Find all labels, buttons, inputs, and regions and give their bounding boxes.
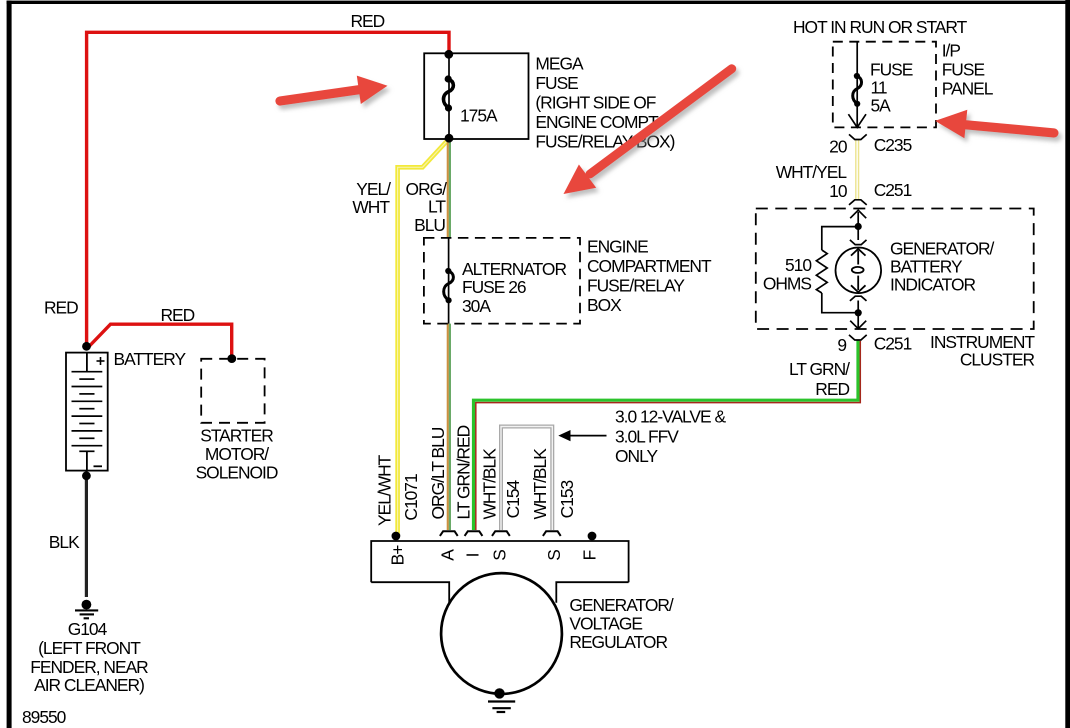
- fuse 11 element: [853, 76, 862, 104]
- svg-text:BLK: BLK: [49, 532, 80, 552]
- svg-text:WHT/BLK: WHT/BLK: [480, 448, 500, 520]
- svg-text:MOTOR/: MOTOR/: [205, 444, 269, 464]
- annotation pointer to jumper: [569, 435, 607, 437]
- svg-text:S: S: [490, 550, 510, 561]
- svg-text:BOX: BOX: [587, 295, 622, 315]
- svg-text:WHT/BLK: WHT/BLK: [530, 448, 550, 520]
- generator circle: [441, 573, 562, 694]
- svg-text:G104: G104: [68, 619, 108, 639]
- connector C251 female bottom: [849, 335, 867, 340]
- svg-text:OHMS: OHMS: [763, 274, 812, 294]
- resistor branch wire: [822, 227, 858, 313]
- junction dot cluster top: [855, 223, 862, 230]
- connector female above indicator: [850, 240, 867, 245]
- svg-text:(LEFT FRONT: (LEFT FRONT: [38, 638, 141, 658]
- svg-text:SOLENOID: SOLENOID: [196, 463, 278, 483]
- svg-text:BLU: BLU: [414, 215, 445, 235]
- svg-text:AIR CLEANER): AIR CLEANER): [34, 675, 144, 695]
- resistor 510 ohms: [816, 250, 827, 293]
- svg-text:3.0 12-VALVE &: 3.0 12-VALVE &: [615, 407, 726, 427]
- starter motor/solenoid box: [201, 359, 264, 423]
- svg-text:C251: C251: [874, 180, 912, 200]
- svg-text:C251: C251: [874, 334, 912, 354]
- junction dot B+: [392, 532, 401, 541]
- svg-text:FUSE: FUSE: [942, 60, 985, 80]
- connector male arrow up into cluster: [850, 210, 866, 226]
- svg-text:RED: RED: [351, 11, 385, 31]
- svg-text:RED: RED: [44, 298, 78, 318]
- svg-text:I: I: [463, 553, 483, 557]
- svg-text:(RIGHT SIDE OF: (RIGHT SIDE OF: [535, 92, 655, 112]
- svg-text:YEL/WHT: YEL/WHT: [375, 454, 395, 526]
- svg-text:F: F: [580, 550, 600, 560]
- connector male arrow down out of cluster: [850, 314, 866, 329]
- svg-text:YEL/: YEL/: [356, 179, 391, 199]
- svg-text:510: 510: [785, 255, 811, 275]
- svg-text:B+: B+: [388, 545, 408, 566]
- svg-text:C154: C154: [503, 479, 523, 518]
- ground G104: [75, 600, 98, 619]
- ground generator: [488, 688, 515, 712]
- alternator fuse box (engine compartment fuse/relay box): [424, 238, 580, 324]
- svg-text:FUSE: FUSE: [870, 59, 913, 79]
- connector female pin S1: [492, 531, 510, 536]
- wire LT GRN/RED instrument cluster to pin I: [474, 341, 861, 531]
- junction dot mega fuse top: [444, 50, 453, 59]
- svg-text:RED: RED: [815, 379, 849, 399]
- svg-text:FUSE/RELAY BOX): FUSE/RELAY BOX): [535, 131, 674, 151]
- wire WHT/YEL fuse 11 to cluster: [855, 140, 859, 199]
- svg-text:10: 10: [829, 181, 847, 201]
- svg-text:PANEL: PANEL: [942, 79, 994, 99]
- fuse F175 wire: [448, 54, 450, 138]
- connector C251 female top: [849, 200, 867, 205]
- wire YEL/WHT mega fuse to B+: [398, 142, 447, 534]
- connector female pin S2: [543, 531, 561, 536]
- wire ORG/LT BLU mega fuse to alternator fuse: [448, 140, 450, 238]
- wire ORG/LT BLU alternator fuse to pin A: [448, 324, 450, 530]
- wire below indicator: [857, 301, 859, 315]
- svg-text:11: 11: [871, 77, 887, 97]
- svg-text:GENERATOR/: GENERATOR/: [890, 239, 995, 259]
- svg-text:FENDER, NEAR: FENDER, NEAR: [30, 657, 148, 677]
- svg-text:FUSE 26: FUSE 26: [462, 277, 526, 297]
- generator/voltage regulator connector bar: [371, 541, 628, 604]
- svg-text:S: S: [544, 550, 564, 561]
- svg-text:3.0L FFV: 3.0L FFV: [615, 426, 679, 446]
- wire cluster internal: [857, 226, 859, 240]
- svg-text:I/P: I/P: [942, 41, 961, 61]
- svg-text:C235: C235: [874, 135, 912, 155]
- svg-text:A: A: [437, 549, 457, 561]
- connector male arrow down fuse 11: [848, 114, 866, 127]
- svg-text:VOLTAGE: VOLTAGE: [569, 614, 642, 634]
- svg-text:RED: RED: [161, 305, 195, 325]
- annotation arrow at engine compartment box: [564, 69, 732, 194]
- svg-text:C153: C153: [557, 480, 577, 518]
- svg-text:89550: 89550: [22, 707, 66, 727]
- svg-text:20: 20: [829, 137, 847, 157]
- svg-text:REGULATOR: REGULATOR: [569, 632, 667, 652]
- svg-text:MEGA: MEGA: [535, 53, 584, 73]
- svg-text:ENGINE COMPT: ENGINE COMPT: [535, 112, 659, 132]
- indicator generator/battery: [836, 247, 882, 293]
- connector female pin A: [440, 531, 458, 536]
- svg-text:FUSE: FUSE: [535, 73, 578, 93]
- connector female below indicator: [850, 296, 867, 301]
- battery BAT: [66, 353, 108, 471]
- battery minus sign: [94, 465, 103, 467]
- svg-text:STARTER: STARTER: [200, 426, 273, 446]
- svg-text:COMPARTMENT: COMPARTMENT: [587, 256, 712, 276]
- fuse 26 element: [444, 271, 454, 300]
- svg-text:CLUSTER: CLUSTER: [960, 350, 1035, 370]
- svg-text:INDICATOR: INDICATOR: [890, 275, 975, 295]
- junction dot mega fuse bottom: [445, 134, 454, 143]
- svg-text:30A: 30A: [462, 296, 491, 316]
- svg-text:9: 9: [837, 335, 846, 355]
- junction dot starter: [227, 354, 236, 363]
- svg-text:LT: LT: [428, 197, 446, 217]
- svg-text:HOT IN RUN OR START: HOT IN RUN OR START: [793, 17, 968, 37]
- instrument cluster box: [756, 209, 1034, 330]
- svg-text:LT GRN/: LT GRN/: [789, 359, 850, 379]
- annotation arrow at mega fuse: [280, 76, 388, 104]
- I/P fuse panel box: [833, 42, 936, 128]
- fuse 26 wire: [448, 238, 450, 324]
- wire BLK battery to ground: [85, 478, 88, 597]
- svg-text:WHT: WHT: [352, 197, 390, 217]
- svg-text:LT GRN/RED: LT GRN/RED: [454, 425, 474, 519]
- wire RED battery to mega fuse: [87, 32, 449, 356]
- svg-text:C1071: C1071: [401, 474, 421, 521]
- fuse F175 element: [443, 79, 453, 108]
- svg-text:ONLY: ONLY: [615, 446, 658, 466]
- junction dot cluster bottom: [855, 309, 862, 316]
- svg-text:ORG/LT BLU: ORG/LT BLU: [428, 427, 448, 519]
- mega fuse box: [424, 53, 528, 139]
- fuse 11 wire: [856, 42, 858, 127]
- junction dot F: [588, 532, 597, 541]
- svg-text:GENERATOR/: GENERATOR/: [569, 595, 674, 615]
- svg-text:WHT/YEL: WHT/YEL: [776, 162, 848, 182]
- junction dot battery -: [82, 471, 91, 480]
- svg-text:175A: 175A: [460, 106, 498, 126]
- svg-text:BATTERY: BATTERY: [114, 349, 187, 369]
- annotation arrow at I/P fuse panel: [935, 110, 1054, 139]
- svg-text:ENGINE: ENGINE: [587, 237, 648, 257]
- wire WHT/BLK jumper C154-C153: [501, 427, 552, 531]
- connector C235 female: [849, 134, 867, 139]
- connector female pin I: [465, 531, 483, 536]
- svg-text:5A: 5A: [871, 96, 892, 116]
- junction dot battery +: [82, 342, 91, 351]
- battery plus sign: [97, 357, 105, 365]
- svg-text:FUSE/RELAY: FUSE/RELAY: [587, 276, 685, 296]
